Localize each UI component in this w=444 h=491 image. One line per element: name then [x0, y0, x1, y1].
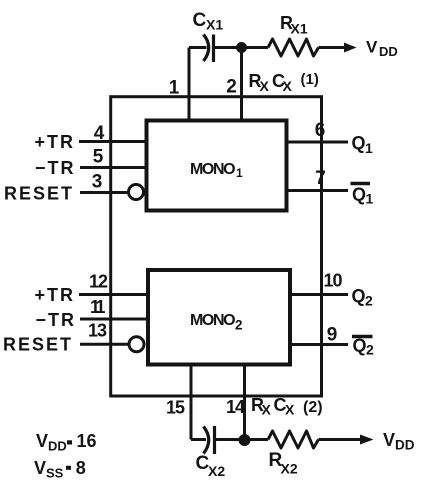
svg-text:2: 2	[365, 293, 373, 309]
svg-text:V: V	[383, 430, 395, 450]
svg-text:X: X	[260, 78, 270, 94]
svg-text:10: 10	[323, 271, 342, 291]
svg-text:1: 1	[169, 78, 180, 99]
svg-text:X1: X1	[206, 17, 223, 33]
svg-text:−TR: −TR	[35, 158, 76, 178]
svg-text:(1): (1)	[301, 71, 319, 88]
svg-text:13: 13	[88, 321, 107, 341]
svg-text:9: 9	[327, 325, 338, 346]
svg-text:DD: DD	[379, 44, 398, 59]
svg-text:Q: Q	[352, 286, 366, 306]
svg-text:X1: X1	[291, 21, 308, 37]
svg-text:6: 6	[315, 120, 326, 141]
svg-text:X2: X2	[281, 461, 298, 477]
svg-text:+TR: +TR	[34, 132, 75, 152]
svg-text:12: 12	[89, 272, 108, 292]
svg-text:8: 8	[76, 458, 86, 478]
svg-text:5: 5	[93, 147, 104, 168]
svg-text:DD: DD	[48, 439, 67, 454]
svg-text:X2: X2	[208, 463, 225, 479]
svg-text:2: 2	[235, 318, 243, 333]
svg-text:V: V	[36, 431, 48, 451]
svg-text:V: V	[366, 38, 378, 57]
svg-text:16: 16	[77, 431, 97, 451]
svg-text:Q: Q	[353, 336, 367, 356]
svg-text:Q: Q	[352, 133, 366, 153]
svg-text:DD: DD	[395, 438, 415, 453]
svg-text:Q: Q	[352, 185, 366, 205]
svg-text:1: 1	[366, 191, 374, 207]
svg-text:C: C	[193, 10, 207, 31]
svg-text:MONO: MONO	[190, 312, 235, 329]
svg-text:X: X	[262, 402, 272, 418]
svg-text:+TR: +TR	[34, 285, 75, 305]
svg-text:2: 2	[366, 342, 374, 358]
svg-text:14: 14	[226, 397, 245, 417]
svg-text:3: 3	[92, 172, 103, 193]
svg-text:RESET: RESET	[3, 335, 73, 355]
svg-text:MONO: MONO	[190, 161, 235, 178]
svg-text:15: 15	[166, 398, 185, 418]
svg-text:V: V	[34, 458, 46, 478]
svg-text:−TR: −TR	[35, 310, 76, 330]
svg-text:1: 1	[365, 140, 373, 156]
svg-text:2: 2	[226, 77, 237, 98]
svg-text:1: 1	[236, 166, 243, 180]
svg-text:X: X	[283, 78, 293, 94]
svg-text:RESET: RESET	[4, 184, 74, 204]
svg-text:X: X	[285, 402, 295, 418]
svg-text:7: 7	[315, 168, 326, 189]
svg-text:4: 4	[94, 123, 105, 144]
svg-text:SS: SS	[46, 466, 64, 481]
svg-text:(2): (2)	[303, 399, 323, 416]
